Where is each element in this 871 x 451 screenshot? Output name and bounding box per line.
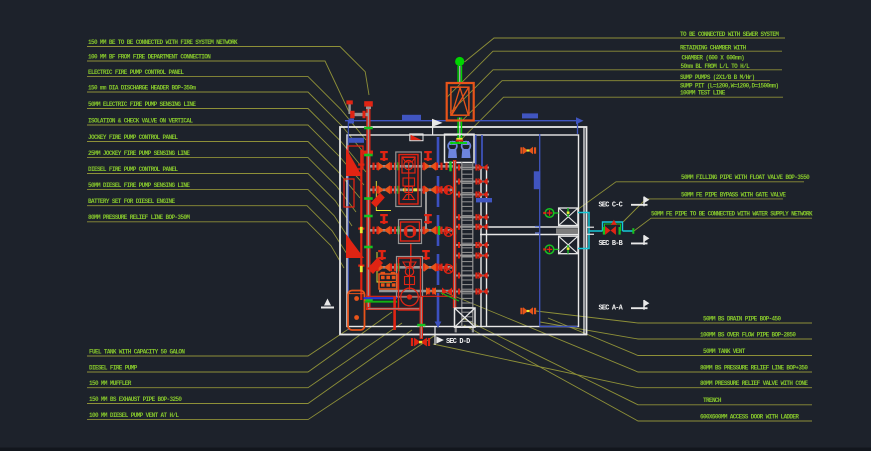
blue door rect top-left [402, 115, 421, 121]
bypass loop [603, 220, 623, 231]
exhaust pipe horizontal [366, 308, 421, 310]
svg-text:DIESEL FIRE PUMP: DIESEL FIRE PUMP [89, 364, 138, 371]
foot valve V2 [543, 245, 558, 254]
svg-text:50mm BL FROM L/L TO H/L: 50mm BL FROM L/L TO H/L [681, 63, 751, 70]
label callout L15: 150 MM MUFFLER [87, 323, 402, 388]
muffler (tilted) 2 [368, 258, 384, 275]
sump pump P1 (blue) [448, 141, 457, 158]
battery set [379, 272, 397, 289]
label callout L13: FUEL TANK WITH CAPACITY 50 GALON [87, 328, 350, 356]
svg-text:SEC A-A: SEC A-A [599, 305, 624, 313]
control panel door swing 2 (red wedge) [346, 234, 364, 258]
svg-text:50MM DIESEL FIRE PUMP SENSING: 50MM DIESEL FIRE PUMP SENSING LINE [88, 182, 190, 189]
room inner wall [347, 135, 579, 327]
drain valve top [520, 147, 536, 155]
jockey-diesel connector [410, 243, 412, 267]
label callout L7: JOCKEY FIRE PUMP CONTROL PANEL [87, 134, 360, 198]
label callout R6: TRENCH [462, 318, 812, 405]
svg-text:50MM FE PIPE TO BE CONNECTED W: 50MM FE PIPE TO BE CONNECTED WITH WATER … [651, 211, 813, 218]
label callout R3: 50MM TANK VENT [548, 318, 812, 356]
label callout L8: 25MM JOCKEY FIRE PUMP SENSING LINE [87, 150, 356, 212]
svg-text:SEC C-C: SEC C-C [599, 201, 623, 209]
sensing tee fittings [378, 151, 432, 260]
electric fire pump unit [396, 152, 422, 207]
svg-text:50MM ELECTRIC FIRE PUMP SENSIN: 50MM ELECTRIC FIRE PUMP SENSING LINE [88, 101, 196, 108]
svg-text:CHAMBER (600 X 600mm): CHAMBER (600 X 600mm) [682, 55, 745, 62]
label callout L4: 150 mm DIA DISCHARGE HEADER BOP-350m [87, 84, 368, 158]
label: 50MM FE PIPE TO WATER SUPPLY NETWORK [634, 211, 813, 231]
corridor wall vertical double [481, 168, 487, 326]
diesel discharge pipe y291 [379, 288, 454, 295]
header top elbow + fdc pipe [350, 101, 373, 118]
label callout L12: 80MM PRESSURE RELIEF LINE BOP-350M [87, 214, 344, 268]
pipe electric pump second row [370, 185, 457, 194]
sump pit box [445, 134, 475, 162]
tank divider wall [480, 227, 578, 235]
diesel fire pump unit [397, 257, 423, 311]
muffler (tilted) 1 [371, 193, 385, 208]
section marker D-D top [432, 119, 443, 135]
svg-text:25MM JOCKEY FIRE PUMP SENSING: 25MM JOCKEY FIRE PUMP SENSING LINE [88, 150, 190, 157]
label callout L11: BATTERY SET FOR DIESEL ENGINE [87, 198, 347, 254]
sensing line yellow 1 [376, 181, 391, 211]
svg-text:50MM TANK VENT: 50MM TANK VENT [703, 348, 746, 355]
fire dept connection pipe [346, 100, 352, 114]
blue door swing left wall [349, 138, 364, 143]
svg-text:TRENCH: TRENCH [703, 397, 722, 404]
svg-text:150 MM BE TO BE CONNECTED WITH: 150 MM BE TO BE CONNECTED WITH FIRE SYST… [88, 39, 238, 46]
pipe diesel pump row [370, 263, 457, 272]
svg-text:SEC B-B: SEC B-B [599, 240, 623, 248]
pump drain pipe [393, 296, 396, 330]
relief pipe to outside [420, 296, 423, 339]
check valves circles [444, 186, 453, 274]
green engine line diag [441, 293, 459, 301]
label: RETAINING CHAMBER WITH [447, 45, 782, 97]
label: 100MM TEST LINE [460, 90, 783, 141]
svg-text:80MM PRESSURE RELIEF VALVE WIT: 80MM PRESSURE RELIEF VALVE WITH CONE [700, 380, 808, 387]
label: 50MM FE PIPE BYPASS WITH GATE VALVE [623, 191, 786, 222]
svg-text:100MM BS OVER FLOW PIPE BOP-28: 100MM BS OVER FLOW PIPE BOP-2850 [700, 331, 796, 338]
relief valve with cone [411, 338, 430, 347]
fuel line blue [364, 297, 398, 299]
section line D-D blue dashed [435, 137, 442, 328]
cyan main to network [589, 228, 634, 234]
section marker SEC A-A [599, 300, 650, 313]
right wall mid line [583, 127, 585, 335]
green tick jockey row [438, 226, 440, 235]
drain valve bottom [520, 307, 536, 315]
sump discharge fitting [450, 138, 467, 145]
sump pump P2 (blue) [462, 141, 471, 158]
access door hatch box [455, 308, 476, 327]
label: SUMP PUMPS [462, 74, 770, 121]
label: TO BE CONNECTED WITH SEWER SYSTEM [465, 31, 786, 62]
label callout L9: DIESEL FIRE PUMP CONTROL PANEL [87, 166, 352, 226]
label: CHAMBER (600 X 600mm) [682, 55, 745, 62]
yellow sensing ticks [360, 227, 363, 272]
secondary header pipe [358, 150, 364, 300]
electric panel box on wall [348, 146, 363, 169]
section marker SEC D-D bottom [435, 326, 470, 346]
svg-text:100 MM BF FROM FIRE DEPARTMENT: 100 MM BF FROM FIRE DEPARTMENT CONNECTIO… [88, 53, 211, 60]
pipe jockey pump row [370, 226, 457, 235]
svg-text:100MM TEST LINE: 100MM TEST LINE [680, 90, 726, 97]
svg-text:TO BE CONNECTED WITH SEWER SYS: TO BE CONNECTED WITH SEWER SYSTEM [680, 31, 779, 38]
label: 50mm BL FROM L/L TO H/L [450, 63, 782, 113]
label callout L2: 100 MM BF FROM FIRE DEPARTMENT CONNECTION [87, 53, 350, 114]
fuel tank [348, 291, 365, 331]
blue wall stubs above corridor [476, 135, 482, 166]
foot valve V1 [543, 209, 558, 218]
svg-text:JOCKEY FIRE PUMP CONTROL PANEL: JOCKEY FIRE PUMP CONTROL PANEL [88, 134, 178, 141]
relief branch bowtie [442, 288, 452, 296]
red line y296 [366, 295, 455, 297]
blue wall line left vertical [347, 120, 349, 330]
svg-text:600X600MM ACCESS DOOR WITH LAD: 600X600MM ACCESS DOOR WITH LADDER [700, 413, 799, 420]
svg-text:50MM BS DRAIN PIPE BOP-450: 50MM BS DRAIN PIPE BOP-450 [703, 315, 782, 322]
blue door rect top-right [522, 113, 538, 118]
jockey discharge vertical [425, 192, 427, 229]
pipe wall crossing ticks [586, 227, 594, 234]
label callout L3: ELECTRIC FIRE PUMP CONTROL PANEL [87, 69, 366, 140]
svg-text:FUEL TANK WITH CAPACITY 50 GAL: FUEL TANK WITH CAPACITY 50 GALON [89, 348, 185, 355]
svg-text:ELECTRIC FIRE PUMP CONTROL PAN: ELECTRIC FIRE PUMP CONTROL PANEL [88, 69, 184, 76]
sump pump S2 hatch box [559, 236, 578, 254]
label callout R7: 600X600MM ACCESS DOOR WITH LADDER [464, 325, 812, 421]
jockey fire pump unit [399, 220, 422, 244]
svg-text:RETAINING CHAMBER WITH: RETAINING CHAMBER WITH [680, 45, 747, 52]
gate valves on riser (green) [364, 127, 373, 302]
svg-text:ISOLATION & CHECK VALVE ON VER: ISOLATION & CHECK VALVE ON VERTICAL [88, 117, 193, 124]
label callout L16: 150 MM BS EXHAUST PIPE BOP-3250 [87, 330, 412, 404]
blue grid line top with arrow [345, 117, 584, 134]
bypass gate valve [603, 226, 621, 235]
svg-text:50MM FILLING PIPE WITH FLOAT V: 50MM FILLING PIPE WITH FLOAT VALVE BOP-3… [681, 174, 810, 181]
section marker SEC B-B [599, 235, 650, 248]
bottom edge strip [0, 448, 871, 451]
svg-text:50MM FE PIPE BYPASS WITH GATE: 50MM FE PIPE BYPASS WITH GATE VALVE [681, 191, 786, 198]
svg-text:SUMP PUMPS (2X1/B B M/Hr): SUMP PUMPS (2X1/B B M/Hr) [680, 74, 755, 81]
label: 50MM FILLING PIPE WITH FLOAT VALVE [577, 174, 810, 210]
retaining chamber hatched box [447, 83, 474, 121]
ladder feet [455, 327, 474, 332]
riser flange [364, 151, 374, 155]
label callout L1: 150 MM BE TO BE CONNECTED WITH FIRE SYSTEM NETWORK [87, 39, 369, 95]
label callout R2: 100MM BS OVER FLOW PIPE BOP-2850 [540, 322, 812, 339]
suction header riser pipe [366, 103, 370, 308]
svg-text:BATTERY SET FOR DIESEL ENGINE: BATTERY SET FOR DIESEL ENGINE [88, 198, 175, 205]
sump pump S1 hatch box [559, 208, 578, 226]
label callout L14: DIESEL FIRE PUMP [87, 312, 392, 372]
label callout R5: 80MM PRESSURE RELIEF VALVE WITH CONE [433, 344, 812, 388]
electric control panel [344, 179, 354, 207]
section mark left A-A [321, 299, 334, 308]
label callout L10: 50MM DIESEL FIRE PUMP SENSING LINE [87, 182, 350, 240]
cyan discharge pipe upper [578, 213, 589, 249]
tank blue wall line [534, 134, 578, 327]
label: SUMP PIT [680, 83, 778, 90]
discharge header vertical [453, 160, 456, 308]
relief pipe gate tick [417, 324, 425, 327]
label callout L5: 50MM ELECTRIC FIRE PUMP SENSING LINE [87, 101, 366, 172]
fuel pipe valve [426, 287, 436, 295]
blue bar corridor [476, 198, 492, 202]
label callout R4: 80MM BS PRESSURE RELIEF LINE BOP+350 [442, 291, 812, 372]
label callout R1: 50MM BS DRAIN PIPE BOP-450 [536, 311, 812, 323]
pipe electric fire pump suction row [370, 161, 454, 171]
sewer pipe green riser [455, 57, 464, 144]
control panel door swing 1 (red wedge) [346, 148, 362, 176]
slope symbol [410, 134, 423, 141]
svg-text:150 MM MUFFLER: 150 MM MUFFLER [89, 380, 132, 387]
sensing line yellow 2 [377, 252, 392, 282]
svg-text:100 MM DIESEL PUMP VENT AT H/L: 100 MM DIESEL PUMP VENT AT H/L [89, 412, 179, 419]
label callout L17: 100 MM DIESEL PUMP VENT AT H/L [87, 334, 437, 420]
room outer wall [340, 127, 587, 335]
svg-text:150 mm DIA DISCHARGE HEADER BO: 150 mm DIA DISCHARGE HEADER BOP-350m [88, 84, 196, 91]
trench with ladder [462, 162, 473, 327]
discharge stubs to wall [456, 164, 489, 295]
svg-text:150 MM BS EXHAUST PIPE BOP-325: 150 MM BS EXHAUST PIPE BOP-3250 [89, 396, 182, 403]
label callout L6: ISOLATION & CHECK VALVE ON VERTICAL [87, 117, 364, 185]
svg-text:SEC D-D: SEC D-D [446, 338, 470, 346]
svg-text:80MM PRESSURE RELIEF LINE BOP-: 80MM PRESSURE RELIEF LINE BOP-350M [88, 214, 190, 221]
section marker SEC C-C [599, 196, 650, 209]
svg-text:80MM BS PRESSURE RELIEF LINE B: 80MM BS PRESSURE RELIEF LINE BOP+350 [700, 364, 808, 371]
svg-text:DIESEL FIRE PUMP CONTROL PANEL: DIESEL FIRE PUMP CONTROL PANEL [88, 166, 178, 173]
yellow dots row2 [403, 188, 417, 191]
fuel line green [365, 301, 398, 303]
